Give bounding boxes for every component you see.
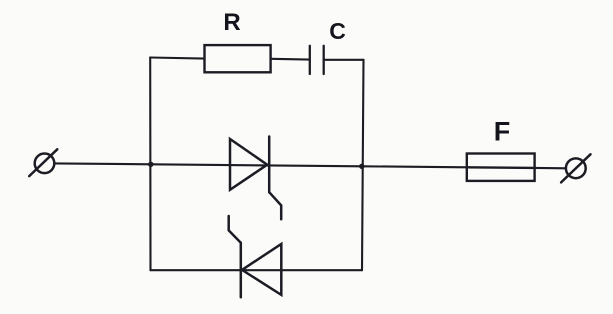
svg-text:F: F (494, 117, 511, 147)
wire: fuse to right terminal (535, 167, 566, 170)
wire: node A to node B (main line through thyristor V1) (151, 164, 362, 166)
wire: top branch, corner to resistor (150, 58, 204, 59)
wire: bottom branch through thyristor V2 (151, 269, 363, 271)
terminal X2 (right) (561, 154, 590, 182)
svg-text:R: R (223, 9, 240, 36)
fuse F (467, 154, 535, 181)
resistor R (205, 45, 271, 72)
wire: left terminal to node A (55, 162, 151, 165)
wire: node B to fuse (362, 166, 467, 167)
svg-text:C: C (329, 18, 346, 44)
wire: snubber right vertical (362, 60, 364, 270)
wire: capacitor to top-right corner (324, 59, 364, 61)
capacitor C (310, 46, 324, 74)
wire: snubber left vertical (149, 57, 151, 270)
node A (junction dot) (148, 162, 153, 167)
node B (junction dot) (359, 164, 364, 169)
terminal X1 (left) (29, 149, 57, 176)
wire: resistor to capacitor (271, 58, 310, 61)
thyristor V1 (top, anode left) (230, 137, 281, 220)
thyristor V2 (bottom, anode right) (229, 216, 282, 297)
